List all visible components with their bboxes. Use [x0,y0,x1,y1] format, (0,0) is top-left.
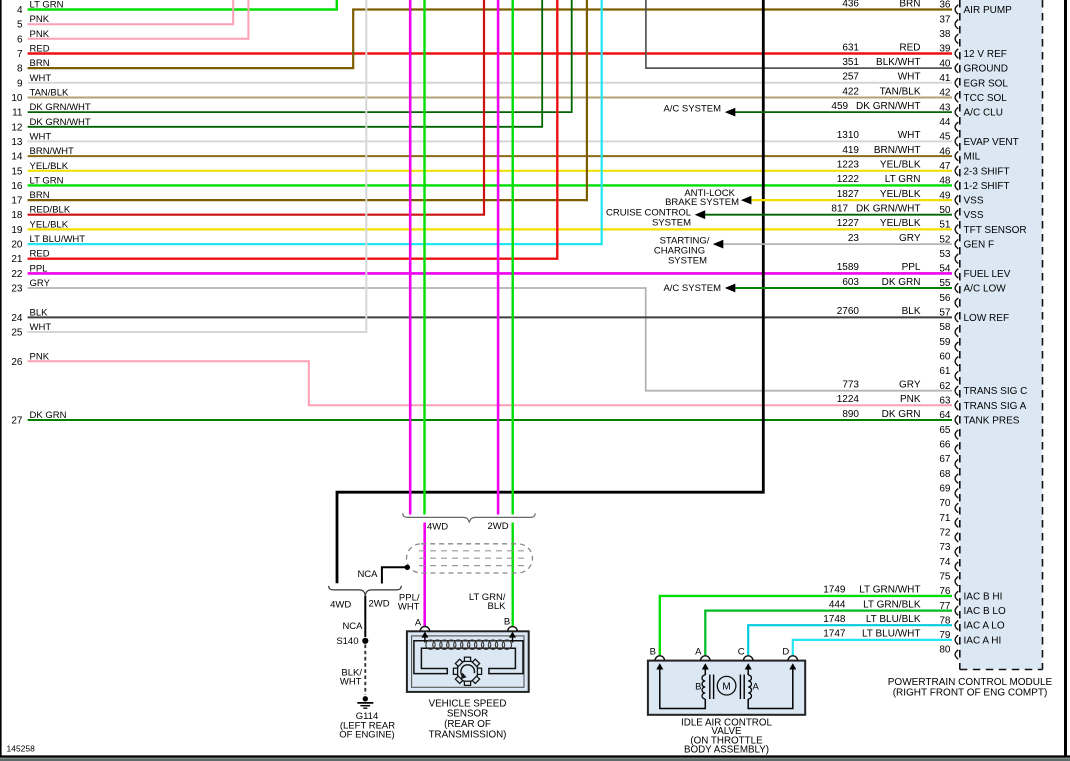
svg-text:SENSOR: SENSOR [447,709,488,720]
bracket 4WD/2WD (upper) [403,513,536,522]
wire 13 WHT circuit 1310 to pin 45 [28,140,952,142]
svg-text:61: 61 [939,366,951,377]
svg-text:1748: 1748 [823,614,846,625]
vehicle speed sensor box [407,631,529,692]
svg-text:2760: 2760 [837,306,860,317]
svg-text:1222: 1222 [837,174,860,185]
svg-text:14: 14 [11,152,23,163]
wire 17 BRN [28,0,587,200]
svg-text:1-2 SHIFT: 1-2 SHIFT [964,181,1010,192]
wire 9 WHT circuit 257 to pin 41 [28,82,952,84]
PCM connector pin 39 bracket [955,49,958,58]
svg-text:1749: 1749 [823,585,846,596]
svg-text:WHT: WHT [898,130,921,141]
harness inner dash row 3 [419,565,526,567]
wire 22 PPL circuit 1589 to pin 54 [28,272,952,275]
svg-text:GRY: GRY [899,233,921,244]
PCM connector pin 67 bracket [955,459,958,468]
PCM connector pin 71 bracket [955,518,958,527]
wire 1749 LT GRN/WHT pin 76 to IAC pin B [660,596,952,656]
svg-text:WHT: WHT [898,72,921,83]
PCM connector pin 50 bracket [955,210,958,219]
svg-text:A/C SYSTEM: A/C SYSTEM [663,104,721,115]
VSS core channel [414,641,523,674]
wire 459 DK GRN/WHT to pin 43 with A/C SYSTEM arrow [734,111,952,113]
PCM connector pin 54 bracket [955,269,958,278]
svg-text:LT GRN: LT GRN [885,174,921,185]
wire 18 RED/BLK [28,0,484,215]
svg-text:75: 75 [939,571,951,582]
svg-text:GROUND: GROUND [964,64,1008,75]
svg-text:YEL/BLK: YEL/BLK [880,218,921,229]
svg-text:71: 71 [939,513,951,524]
VSS pin B arrow [512,635,514,643]
svg-text:TRANS SIG A: TRANS SIG A [964,401,1027,412]
svg-text:RED: RED [899,42,920,53]
svg-text:IAC A HI: IAC A HI [964,635,1002,646]
svg-text:20: 20 [11,240,23,251]
VSS pin A arrow [424,635,426,643]
ground G114 symbol [363,696,368,701]
svg-text:7: 7 [17,49,23,60]
svg-text:TAN/BLK: TAN/BLK [880,86,921,97]
svg-text:MIL: MIL [964,152,981,163]
svg-text:LT GRN/WHT: LT GRN/WHT [859,585,920,596]
wire 24 BLK circuit 2760 to pin 57 [28,316,952,318]
svg-text:POWERTRAIN CONTROL MODULE: POWERTRAIN CONTROL MODULE [888,677,1053,688]
svg-text:A: A [753,682,760,693]
PCM connector pin 78 bracket [955,621,958,630]
svg-text:AIR PUMP: AIR PUMP [964,5,1013,16]
svg-text:9: 9 [17,78,23,89]
harness inner dash row 1 [419,550,526,552]
wire LT GRN/BLK to VSS pin B [512,523,514,627]
svg-text:PPL: PPL [902,262,921,273]
wire 4 LT GRN [28,0,337,10]
harness inner dash row 2 [419,557,526,559]
svg-text:58: 58 [939,322,951,333]
svg-text:74: 74 [939,557,951,568]
svg-text:IAC A LO: IAC A LO [964,621,1005,632]
svg-text:IAC B HI: IAC B HI [964,591,1003,602]
svg-text:6: 6 [17,34,23,45]
svg-text:TANK PRES: TANK PRES [964,416,1020,427]
svg-text:BRN/WHT: BRN/WHT [874,145,921,156]
svg-text:LT BLU/BLK: LT BLU/BLK [866,614,921,625]
PCM connector pin 65 bracket [955,430,958,439]
svg-text:8: 8 [17,64,23,75]
svg-text:80: 80 [939,645,951,656]
wire 23 GRY circuit 773 to pin 62 [28,288,952,391]
VSS gear rotor [453,657,481,685]
svg-text:C: C [738,647,745,658]
VSS pin B arc [508,627,518,632]
svg-text:444: 444 [829,599,846,610]
svg-text:2WD: 2WD [368,599,389,610]
svg-text:DK GRN/WHT: DK GRN/WHT [856,101,920,112]
wire 27 DK GRN circuit 890 to pin 64 [28,419,952,421]
PCM connector pin 36 bracket [955,5,958,14]
svg-text:BODY ASSEMBLY): BODY ASSEMBLY) [684,745,769,756]
svg-text:773: 773 [842,380,859,391]
wire 817 DK GRN/WHT to pin 50 with CRUISE arrow [704,214,952,216]
harness conduit dashed oval [407,544,533,573]
svg-text:66: 66 [939,440,951,451]
svg-text:EVAP VENT: EVAP VENT [964,137,1019,148]
svg-text:26: 26 [11,357,23,368]
PCM connector pin 77 bracket [955,606,958,615]
svg-text:LOW REF: LOW REF [964,313,1010,324]
PCM dashed border right [1042,0,1044,670]
PCM dashed border bottom [960,669,1043,671]
PCM connector pin 59 bracket [955,342,958,351]
PCM connector pin 63 bracket [955,401,958,410]
svg-text:B: B [504,617,510,628]
wire NCA to harness [382,567,406,583]
svg-text:B: B [695,682,701,693]
PCM module box (Powertrain Control Module) [960,0,1043,670]
wire 603 DK GRN to pin 55 with A/C SYSTEM arrow [734,287,952,289]
svg-text:60: 60 [939,352,951,363]
PCM connector pin 41 bracket [955,78,958,87]
wire PPL/WHT vertical 2WD [497,0,500,515]
svg-text:DK GRN/WHT: DK GRN/WHT [856,204,920,215]
svg-text:LT GRN/BLK: LT GRN/BLK [863,599,921,610]
PCM connector pin 73 bracket [955,547,958,556]
IAC coil B [702,675,705,699]
svg-text:5: 5 [17,20,23,31]
svg-text:1827: 1827 [837,189,860,200]
svg-text:TRANS SIG C: TRANS SIG C [964,386,1028,397]
svg-text:S140: S140 [336,636,358,647]
splice S140 [362,638,368,644]
svg-text:70: 70 [939,498,951,509]
wire 16 LT GRN circuit 1222 to pin 48 [28,184,952,186]
PCM connector pin 48 bracket [955,181,958,190]
svg-text:72: 72 [939,528,951,539]
PCM connector pin 74 bracket [955,562,958,571]
PCM connector pin 52 bracket [955,239,958,248]
PCM connector pin 61 bracket [955,371,958,380]
wire 10 TAN/BLK circuit 422 to pin 42 [28,97,952,99]
svg-text:23: 23 [848,233,860,244]
svg-text:BLK: BLK [902,306,921,317]
IAC pin D arc [788,656,798,661]
svg-text:D: D [782,647,789,658]
PCM connector pin 72 bracket [955,533,958,542]
svg-text:WHT: WHT [398,602,420,613]
svg-text:WHT: WHT [340,677,362,688]
svg-text:A/C SYSTEM: A/C SYSTEM [663,283,721,294]
wire NCA below bracket [364,596,366,638]
wire 20 LT BLU/WHT [28,0,602,244]
svg-text:21: 21 [11,254,23,265]
wire 1827 YEL/BLK to pin 49 with ANTI-LOCK arrow [750,199,952,201]
svg-text:16: 16 [11,181,23,192]
svg-text:NCA: NCA [342,621,363,632]
PCM connector pin 58 bracket [955,327,958,336]
svg-text:69: 69 [939,484,951,495]
VSS pin A arc [420,626,430,631]
PCM dashed border left [959,0,961,670]
PCM connector pin 75 bracket [955,577,958,586]
svg-text:44: 44 [939,117,951,128]
page border right [1064,0,1067,757]
svg-text:12 V REF: 12 V REF [964,49,1007,60]
svg-text:BLK/WHT: BLK/WHT [876,57,920,68]
wire BLK/WHT dashed to ground [364,645,366,695]
wire 15 YEL/BLK circuit 1223 to pin 47 [28,170,952,172]
IAC pin A arc [701,656,711,661]
PCM connector pin 56 bracket [955,298,958,307]
svg-text:419: 419 [842,145,859,156]
svg-text:SYSTEM: SYSTEM [652,217,691,228]
wire 21 RED [28,0,558,259]
svg-text:37: 37 [939,14,951,25]
page border left [0,0,2,757]
wire LT GRN/BLK vertical 4WD [423,0,425,515]
svg-text:A: A [415,618,422,629]
wire 444 LT GRN/BLK pin 77 to IAC pin A [705,611,952,656]
svg-text:2WD: 2WD [487,521,508,532]
wire 7 RED circuit 631 to pin 39 [28,52,952,54]
svg-text:VSS: VSS [964,210,984,221]
svg-text:11: 11 [12,108,23,119]
wire 1747 LT BLU/WHT pin 79 to IAC pin D [793,640,952,656]
svg-text:1747: 1747 [823,629,846,640]
PCM connector pin 49 bracket [955,195,958,204]
PCM connector pin 38 bracket [955,34,958,43]
PCM connector pin 43 bracket [955,107,958,116]
wire 6 PNK [28,0,249,39]
svg-text:(RIGHT FRONT OF ENG COMPT): (RIGHT FRONT OF ENG COMPT) [893,688,1048,699]
svg-text:19: 19 [11,225,23,236]
PCM connector pin 57 bracket [955,313,958,322]
svg-text:IAC B LO: IAC B LO [964,606,1006,617]
svg-text:(REAR OF: (REAR OF [444,719,491,730]
svg-text:EGR SOL: EGR SOL [964,78,1009,89]
svg-text:1224: 1224 [837,394,860,405]
page border bottom [0,755,1070,757]
svg-text:4WD: 4WD [330,600,351,611]
svg-text:12: 12 [11,122,23,133]
wire 26 PNK circuit 1224 to pin 63 [28,361,952,405]
svg-text:23: 23 [11,284,23,295]
PCM connector pin 53 bracket [955,254,958,263]
PCM connector pin 64 bracket [955,415,958,424]
svg-text:22: 22 [11,269,23,280]
svg-text:1227: 1227 [837,218,860,229]
svg-text:53: 53 [939,249,951,260]
svg-text:631: 631 [842,42,859,53]
svg-text:890: 890 [842,409,859,420]
svg-text:1589: 1589 [837,262,860,273]
wire PPL/WHT to VSS pin A [423,523,426,627]
svg-text:DK GRN: DK GRN [882,277,921,288]
svg-text:PNK: PNK [900,394,921,405]
svg-text:OF ENGINE): OF ENGINE) [339,730,394,741]
PCM connector pin 60 bracket [955,357,958,366]
PCM connector pin 46 bracket [955,151,958,160]
IAC pin B arc [655,656,665,661]
svg-text:1223: 1223 [837,160,860,171]
PCM connector pin 80 bracket [955,650,958,659]
IAC pin B arrow and path [660,667,706,709]
wire 1748 LT BLU/BLK pin 78 to IAC pin C [748,625,952,655]
svg-text:73: 73 [939,542,951,553]
PCM connector pin 44 bracket [955,122,958,131]
PCM connector pin 62 bracket [955,386,958,395]
svg-text:351: 351 [842,57,859,68]
IAC pin C arrow [747,667,749,676]
svg-text:15: 15 [11,166,23,177]
svg-text:817: 817 [831,204,848,215]
svg-text:603: 603 [842,277,859,288]
svg-text:YEL/BLK: YEL/BLK [880,160,921,171]
svg-text:4: 4 [17,5,23,16]
PCM connector pin 66 bracket [955,445,958,454]
svg-text:GEN F: GEN F [964,240,995,251]
IAC motor M [717,676,736,695]
svg-text:DK GRN: DK GRN [882,409,921,420]
junction dot on harness [405,565,410,570]
PCM connector pin 45 bracket [955,137,958,146]
svg-text:BLK: BLK [488,601,507,612]
svg-text:M: M [722,681,730,692]
VSS coil winding [426,640,435,649]
svg-text:13: 13 [11,137,23,148]
svg-text:257: 257 [842,72,859,83]
svg-text:17: 17 [11,196,23,207]
IAC pin D arrow and path [748,667,793,709]
svg-text:SYSTEM: SYSTEM [668,256,707,267]
svg-text:4WD: 4WD [427,522,448,533]
PCM connector pin 79 bracket [955,635,958,644]
idle air control valve box [648,661,805,715]
svg-text:LT BLU/WHT: LT BLU/WHT [862,629,921,640]
svg-text:2-3 SHIFT: 2-3 SHIFT [964,166,1010,177]
IAC core bars left [709,675,711,700]
PCM connector pin 69 bracket [955,489,958,498]
PCM connector pin 55 bracket [955,283,958,292]
PCM connector pin 76 bracket [955,591,958,600]
svg-text:10: 10 [11,93,23,104]
wire 14 BRN/WHT circuit 419 to pin 46 [28,155,952,157]
svg-text:145258: 145258 [7,744,36,754]
wire 8 BRN circuit 436 to pin 36 [28,10,952,69]
svg-text:459: 459 [831,101,848,112]
PCM connector pin 47 bracket [955,166,958,175]
svg-text:GRY: GRY [899,380,921,391]
svg-text:27: 27 [11,416,23,427]
svg-text:65: 65 [939,425,951,436]
PCM connector pin 37 bracket [955,20,958,29]
PCM connector pin 40 bracket [955,63,958,72]
svg-text:68: 68 [939,469,951,480]
svg-text:422: 422 [842,86,859,97]
IAC coil A [748,675,751,699]
svg-text:1310: 1310 [837,130,860,141]
svg-text:NCA: NCA [357,569,378,580]
svg-text:TRANSMISSION): TRANSMISSION) [429,730,507,741]
wire 25 WHT [28,0,367,332]
wire 5 PNK [28,0,234,24]
svg-text:YEL/BLK: YEL/BLK [880,189,921,200]
wire PPL/WHT vertical 4WD [409,0,412,515]
svg-text:A/C CLU: A/C CLU [964,108,1003,119]
wire 12 DK GRN/WHT [28,0,543,127]
wire LT GRN/BLK vertical 2WD [512,0,514,515]
PCM connector pin 42 bracket [955,93,958,102]
IAC pin A arrow [704,667,706,676]
svg-text:436: 436 [842,0,859,9]
wire 11 DK GRN/WHT [28,0,572,112]
svg-text:VSS: VSS [964,196,984,207]
IAC pin C arc [743,656,753,661]
svg-text:56: 56 [939,293,951,304]
svg-text:67: 67 [939,454,951,465]
svg-text:TFT SENSOR: TFT SENSOR [964,225,1027,236]
wire BLK trunk to 4WD bracket [337,0,763,583]
svg-text:18: 18 [11,210,23,221]
wire 23 GRY to pin 52 with STARTING/CHARGING arrow [722,243,952,245]
svg-text:25: 25 [11,328,23,339]
svg-text:24: 24 [11,313,23,324]
wire BLK/WHT circuit 351 to pin 40 [646,0,952,68]
PCM connector pin 51 bracket [955,225,958,234]
svg-text:B: B [650,647,656,658]
svg-text:BRN: BRN [899,0,920,9]
svg-text:38: 38 [939,29,951,40]
svg-text:A: A [695,647,702,658]
bracket 4WD/2WD (lower) [329,586,402,595]
svg-text:59: 59 [939,337,951,348]
IAC core bars right [739,675,741,700]
svg-text:A/C LOW: A/C LOW [964,284,1007,295]
PCM connector pin 68 bracket [955,474,958,483]
wire 19 YEL/BLK circuit 1227 to pin 51 [28,228,952,230]
PCM connector pin 70 bracket [955,503,958,512]
svg-text:FUEL LEV: FUEL LEV [964,269,1011,280]
svg-text:TCC SOL: TCC SOL [964,93,1008,104]
